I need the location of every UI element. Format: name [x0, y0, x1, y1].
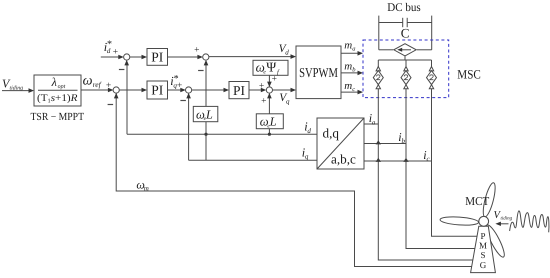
label P M S G [479, 231, 487, 270]
node Vtiding input label [2, 77, 23, 92]
node ia label [369, 111, 376, 126]
block SVPWM [296, 46, 341, 99]
label TSR-MPPT [31, 111, 85, 123]
node iq* label [170, 73, 178, 89]
svg-text:S: S [480, 250, 485, 260]
svg-text:a,b,c: a,b,c [331, 152, 356, 167]
svg-text:d: d [307, 127, 311, 135]
svg-text:ref: ref [93, 80, 102, 89]
dependent source leg b diamond [401, 71, 411, 85]
leg b: wire down from rail [405, 60, 407, 71]
svg-text:L: L [205, 107, 213, 121]
turbine blade upper [481, 182, 498, 218]
wire TSR-MPPT to sum2 [81, 89, 109, 91]
leg c: wire down from rail [431, 60, 433, 71]
svg-text:+: + [113, 47, 118, 57]
wire iq feedback line [189, 159, 317, 161]
arrow marker leg a bottom [376, 85, 380, 89]
svg-text:+: + [177, 81, 182, 91]
node ib label [398, 130, 405, 145]
wire to top diamond left [379, 49, 393, 51]
svg-text:+: + [259, 81, 264, 91]
arrow marker leg b bottom [404, 85, 408, 89]
junction marker a-b crossing [376, 140, 381, 144]
tide wave squiggle [510, 211, 549, 232]
junction marker b-c crossing [403, 158, 408, 162]
wire ib tap [364, 143, 406, 145]
dependent source DC-side diamond [394, 44, 416, 56]
svg-text:P: P [480, 231, 485, 241]
svg-text:+: + [194, 46, 199, 56]
svg-text:a: a [372, 118, 376, 126]
summing junction sum3 (iq loop) [186, 87, 192, 93]
junction dot on id line [204, 133, 207, 136]
node ic label [423, 148, 430, 163]
svg-text:*: * [107, 39, 112, 50]
wire ia tap [364, 123, 378, 125]
svg-text:a: a [352, 46, 355, 53]
svg-text:(T1s+1)R: (T1s+1)R [37, 93, 78, 105]
node omega_m label [136, 178, 148, 193]
svg-text:opt: opt [58, 84, 66, 90]
wire SVPWM mc output [341, 91, 359, 93]
turbine blade left [440, 216, 479, 226]
block PI2 [147, 81, 168, 99]
svg-text:MCT: MCT [465, 194, 490, 208]
block omega_e L (q-axis decoupling) [256, 114, 283, 129]
node id* reference label [104, 39, 112, 55]
wire AC rail [378, 59, 431, 61]
wire SVPWM ma output [341, 52, 359, 54]
label MSC [457, 68, 481, 82]
svg-text:b: b [402, 137, 406, 145]
block dq-abc transformation [317, 118, 364, 169]
svg-text:b: b [352, 66, 356, 73]
svg-text:m: m [344, 80, 352, 92]
svg-text:tiding: tiding [501, 216, 513, 222]
svg-text:m: m [344, 40, 352, 52]
svg-text:c: c [427, 155, 431, 163]
wire tide arrow [500, 223, 509, 225]
wire sum5 to SVPWM (Vq) [272, 89, 291, 91]
wire SVPWM mb output [341, 72, 359, 74]
wire id feedback line [127, 133, 317, 135]
wire diamond bottom stub [404, 56, 406, 60]
svg-text:λ: λ [51, 75, 57, 89]
svg-text:+: + [106, 81, 111, 91]
node mc label [344, 80, 355, 93]
wire PI3 to sum5 [249, 89, 262, 91]
turbine hub [479, 216, 489, 226]
wire to top diamond right [417, 49, 432, 51]
dashed box MSC converter [363, 40, 449, 98]
svg-text:PI: PI [233, 83, 246, 98]
arrow marker leg b top [404, 67, 408, 71]
node Vd label [279, 43, 290, 56]
summing junction sum5 (Vq) [266, 87, 272, 93]
junction marker a-c crossing [376, 158, 381, 162]
node id label [304, 120, 311, 135]
wire sum4 to SVPWM (Vd) [209, 56, 292, 58]
svg-text:d,q: d,q [323, 126, 340, 141]
svg-text:TSR − MPPT: TSR − MPPT [31, 111, 85, 123]
wire id feedback up to sum1 [126, 64, 128, 134]
wire iq decoupling up through omega_e L to sum4 [205, 122, 207, 161]
junction dot on id line at omega_e L 2 [268, 133, 271, 136]
wire DC bus left leg [378, 16, 380, 50]
svg-text:DC bus: DC bus [387, 0, 421, 14]
block PI3 [229, 82, 249, 99]
wire sum2 to PI2 [119, 89, 142, 91]
wire leg b down to PMSG [406, 89, 475, 249]
svg-text:Ψ: Ψ [266, 60, 276, 75]
arrow marker leg c top [429, 67, 433, 71]
wire leg a down to PMSG [378, 89, 473, 260]
block TSR-MPPT transfer function [34, 75, 81, 106]
svg-text:+: + [261, 96, 266, 106]
label DC bus [387, 0, 421, 14]
svg-text:m: m [344, 60, 352, 72]
wire leg c down to PMSG [432, 89, 478, 237]
block omega_e*Psi_f feedforward [253, 60, 288, 75]
capacitor C [379, 22, 403, 24]
svg-text:PI: PI [151, 50, 164, 65]
wire Vtiding to TSR-MPPT [2, 90, 30, 92]
svg-text:d: d [285, 48, 289, 56]
turbine blade lower-right [483, 223, 507, 259]
wire id decoupling up through omega_e L to sum5 [268, 129, 270, 135]
svg-text:MSC: MSC [457, 68, 481, 82]
block omega_e L (d-axis decoupling) [193, 106, 218, 121]
arrow marker leg c bottom [429, 85, 433, 89]
wire DC bus right leg [431, 16, 433, 50]
arrow marker leg a top [376, 67, 380, 71]
node ma label [344, 40, 355, 53]
svg-text:SVPWM: SVPWM [299, 65, 338, 80]
wire ic tap [364, 160, 432, 162]
wire sum1 to PI1 [130, 56, 143, 58]
node Vq label [279, 92, 290, 105]
svg-text:L: L [269, 115, 277, 129]
wire omega_m feedback to sum2 [116, 93, 472, 267]
leg a: wire down from rail [377, 60, 379, 71]
svg-text:G: G [480, 260, 487, 270]
node Vtiding at turbine [494, 210, 513, 222]
PMSG tower [471, 226, 496, 272]
summing junction sum2 (speed loop) [113, 87, 119, 93]
wire PI2 to sum3 [168, 89, 182, 91]
svg-text:c: c [352, 86, 355, 93]
svg-text:PI: PI [151, 83, 164, 98]
wire sum3 to PI3 [192, 89, 225, 91]
block PI1 [147, 49, 168, 66]
svg-text:C: C [401, 26, 410, 41]
summing junction sum1 (id loop) [124, 54, 130, 60]
wire omega_e*Psi_f to sum5 [268, 75, 270, 83]
wire PI1 to sum4 [168, 56, 199, 58]
svg-text:q: q [286, 97, 290, 105]
summing junction sum4 (Vd) [203, 54, 209, 60]
wire iq feedback up to sum3 [188, 97, 190, 160]
node iq label [302, 145, 309, 160]
label MCT [465, 194, 490, 208]
svg-text:M: M [479, 241, 487, 251]
svg-text:ω: ω [83, 73, 93, 88]
wire id* to sum1 [101, 56, 120, 58]
node omega_ref label [83, 73, 102, 89]
svg-text:q: q [305, 153, 309, 161]
svg-text:m: m [144, 185, 149, 193]
node mb label [344, 60, 356, 73]
dependent source leg a diamond [373, 71, 383, 85]
dependent source leg c diamond [427, 71, 437, 85]
